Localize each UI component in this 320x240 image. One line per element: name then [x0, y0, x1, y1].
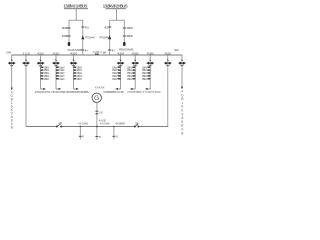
node bottom junction D2 — [113, 126, 115, 128]
feeder line F8 — [149, 55, 151, 89]
load taps F5 — [74, 66, 77, 68]
arrow L1 cable end — [11, 88, 13, 91]
svg-text:4XGBB: 4XGBB — [100, 121, 110, 125]
arrow F5 — [74, 88, 78, 90]
svg-text:1.5kW: 1.5kW — [127, 77, 133, 81]
feeder line F5 — [73, 55, 75, 89]
svg-text:G: G — [94, 95, 99, 102]
svg-text:4G1: 4G1 — [85, 26, 90, 30]
disconnector S2 — [67, 35, 70, 37]
svg-text:GB: GB — [58, 121, 62, 125]
node bottom junction D1 — [79, 126, 81, 128]
arrow F7 — [131, 88, 135, 90]
breaker cluster F4 — [55, 60, 57, 61]
breaker cluster L1 — [11, 60, 13, 61]
fuse tick D1 — [79, 135, 82, 137]
svg-text:XAXAX: XAXAX — [95, 86, 105, 90]
svg-text:7XXPRXA5X XXGB-5B: 7XXPRXA5X XXGB-5B — [69, 90, 89, 94]
wire bottom bus — [26, 126, 57, 128]
svg-text:4GB16KVA8XB: 4GB16KVA8XB — [10, 91, 13, 130]
svg-text:4GB16KVA8BXB: 4GB16KVA8BXB — [181, 90, 184, 136]
svg-text:PT/19-4B: PT/19-4B — [99, 36, 109, 40]
svg-text:13.8kV.II 2#BUS: 13.8kV.II 2#BUS — [103, 4, 128, 9]
svg-text:4GB3: 4GB3 — [70, 51, 77, 55]
breaker cluster F6 — [120, 60, 122, 61]
svg-text:4GB1: 4GB1 — [37, 51, 44, 55]
svg-text:B: B — [99, 135, 101, 139]
svg-text:1.5kW: 1.5kW — [44, 77, 50, 81]
breaker cluster F5 — [73, 60, 75, 61]
svg-text:XKXB-XXKB-XB: XKXB-XXKB-XB — [52, 90, 69, 94]
svg-text:B: B — [82, 135, 84, 139]
load taps F6 — [118, 66, 121, 68]
wire feedB T-bar — [110, 19, 125, 21]
feeder line F4 — [55, 55, 57, 89]
svg-text:44GPB: 44GPB — [126, 26, 133, 30]
svg-text:1.5kW: 1.5kW — [142, 77, 148, 81]
svg-text:4PGDB: 4PGDB — [126, 34, 133, 38]
arrester F2 — [123, 42, 126, 46]
svg-text:44GPB: 44GPB — [62, 26, 69, 30]
fuse tick G drop — [95, 136, 98, 138]
disconnector G1 marks — [95, 110, 98, 112]
breaker cluster F8 — [149, 60, 151, 61]
wire feedB drop — [116, 9, 118, 21]
feeder line L10 — [181, 55, 183, 88]
load taps F3 — [41, 66, 44, 68]
svg-text:4GB: 4GB — [23, 51, 30, 55]
svg-text:GX: GX — [99, 110, 103, 114]
svg-text:4PGDB: 4PGDB — [62, 34, 69, 38]
svg-text:4GB7: 4GB7 — [164, 51, 171, 55]
svg-text:4GB6: 4GB6 — [147, 51, 154, 55]
wire G to bottom bus — [96, 102, 98, 139]
generator G1 — [92, 93, 101, 102]
svg-text:1.5kW: 1.5kW — [112, 77, 118, 81]
arrow F4 — [56, 88, 60, 90]
feeder line F7 — [134, 55, 136, 89]
wire bus2 underline — [106, 8, 127, 10]
svg-text:4XGBBX: 4XGBBX — [115, 121, 125, 125]
feeder line F3 — [40, 55, 42, 89]
wire bus1 underline — [64, 8, 88, 10]
switch SW1 — [56, 126, 58, 128]
svg-text:4XGBB: 4XGBB — [78, 121, 88, 125]
wire feedA drop — [75, 9, 77, 21]
wire bottom drop D2 — [113, 127, 115, 140]
svg-text:4N: 4N — [112, 48, 115, 52]
wire feedA T-bar — [69, 19, 83, 21]
svg-text:4N: 4N — [85, 48, 88, 52]
load taps F8 — [147, 66, 150, 68]
svg-text:4GB5: 4GB5 — [132, 51, 139, 55]
breaker cluster L2 — [25, 60, 27, 61]
breaker cluster L9 — [167, 60, 169, 61]
breaker Q1 — [81, 35, 84, 39]
load taps F7 — [132, 66, 135, 68]
arrow F8 — [146, 88, 150, 90]
breaker cluster L10 — [181, 60, 183, 61]
svg-text:X 7X3UX7.5XW: X 7X3UX7.5XW — [143, 90, 161, 94]
svg-text:PT/19-4A: PT/19-4A — [85, 36, 95, 40]
svg-text:4GB2: 4GB2 — [53, 51, 60, 55]
svg-text:PXXXKXBW: PXXXKXBW — [128, 90, 142, 94]
svg-text:B: B — [116, 135, 118, 139]
fuse tick D2 — [112, 135, 115, 137]
arrester F1 — [68, 42, 71, 46]
svg-text:XXXBKB4B XXXX-5X: XXXBKB4B XXXX-5X — [103, 90, 124, 94]
breaker cluster F3 — [40, 60, 42, 61]
load taps F4 — [56, 66, 59, 68]
feeder line L1 — [11, 55, 13, 89]
disconnector S7 — [123, 27, 126, 29]
wire feedA left branch — [68, 20, 70, 45]
node bottom junction G — [96, 126, 98, 128]
svg-text:GB: GB — [135, 121, 139, 125]
svg-text:4G2: 4G2 — [104, 26, 109, 30]
wire main bus — [12, 54, 183, 56]
svg-text:13.8kV.I 1#BUS: 13.8kV.I 1#BUS — [64, 4, 88, 9]
wire feedA right branch — [82, 20, 84, 55]
disconnector S3 — [81, 26, 84, 28]
node bus PT tap — [95, 53, 97, 55]
feeder line L2 + bottom bus riser — [25, 55, 27, 127]
disconnector S4 — [81, 49, 84, 51]
svg-text:1.5kW: 1.5kW — [59, 77, 65, 81]
feeder line L9 + right riser — [167, 55, 169, 127]
disconnector S5 — [108, 26, 111, 28]
switch SW2 — [134, 126, 136, 128]
feeder line F6 — [120, 55, 122, 89]
disconnector S6 — [108, 49, 111, 51]
svg-text:1.5kW: 1.5kW — [77, 77, 83, 81]
svg-text:4G8: 4G8 — [174, 48, 179, 52]
svg-text:1/7KWUX 4TXXU: 1/7KWUX 4TXXU — [35, 90, 52, 94]
arrow F6 — [117, 88, 121, 90]
svg-text:G4B: G4B — [6, 51, 11, 55]
breaker Q2 — [108, 35, 111, 39]
breaker cluster F7 — [134, 60, 136, 61]
disconnector S1 — [67, 27, 70, 29]
arrow F3 — [41, 88, 45, 90]
wire feedB right branch — [123, 20, 125, 45]
disconnector S8 — [123, 35, 126, 37]
svg-text:GXB 4: GXB 4 — [93, 50, 102, 54]
wire feedB left branch — [109, 20, 111, 55]
svg-text:BH: BH — [103, 50, 107, 54]
svg-text:4GB4: 4GB4 — [117, 51, 124, 55]
arrow L10 cable end — [181, 87, 183, 90]
wire bottom drop D1 — [79, 127, 81, 140]
